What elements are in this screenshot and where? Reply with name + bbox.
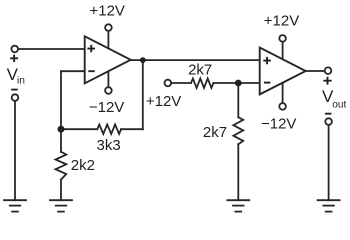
terminal U2 +12V supply [279,35,286,42]
wire R4 to ground [237,144,239,200]
terminal U2 -12V supply [279,103,286,110]
svg-text:3k3: 3k3 [97,137,121,154]
op-amp U1 [85,36,131,83]
wire U1 positive supply pin [107,32,109,50]
wire Vin- down to ground [14,102,16,200]
wire Vin+ to U1 non-inverting input [19,48,85,50]
terminal Vout- [325,118,332,125]
wire U1 output to U2 non-inverting input [131,59,260,61]
svg-text:out: out [332,100,346,111]
minus mark at Vout- terminal [325,113,332,115]
terminal Vin+ [11,46,18,53]
ground (Vin-) [4,200,26,211]
wire U2 positive supply pin [282,43,284,60]
svg-text:2k7: 2k7 [188,61,212,78]
terminal U1 +12V supply [105,24,112,31]
op-amp U2 [260,48,306,95]
U2 inverting input minus mark [264,82,271,84]
svg-text:+12V: +12V [146,93,181,110]
wire R1 to ground [60,180,62,201]
svg-text:in: in [17,76,25,87]
U1 inverting input minus mark [88,70,95,72]
wire Vout- down to ground [328,126,330,200]
wire node A to R2 [61,128,97,130]
node A junction dot [58,126,65,133]
wire inverting input down to node A [60,71,62,129]
plus mark at Vout+ terminal [323,77,331,85]
terminal Vin- [12,94,19,101]
ground (R4 2k7) [227,200,249,211]
node C junction dot [235,80,242,87]
node B junction dot [140,57,146,63]
wire U1 negative supply pin [107,70,109,86]
resistor R4 2k7 (vertical) [233,117,243,144]
U2 non-inverting input plus mark [263,57,271,64]
svg-text:+12V: +12V [89,2,124,19]
svg-text:2k7: 2k7 [203,124,227,141]
wire U2 negative supply pin [282,81,284,102]
ground (Vout-) [318,200,340,211]
wire +12V terminal to R3 [172,82,191,84]
resistor R1 2k2 [56,152,67,180]
plus mark at Vin+ terminal [10,55,18,62]
svg-text:+12V: +12V [264,13,299,30]
terminal +12V reference [165,80,172,87]
minus mark at Vin- terminal [11,89,18,91]
ground (R1 2k2) [50,200,72,211]
wire U2 output [306,70,324,72]
wire U1 inverting input [61,70,85,72]
svg-text:−12V: −12V [261,115,296,132]
U1 non-inverting input plus mark [87,45,95,52]
wire node A down to R1 [60,129,62,152]
wire R3 to U2 inverting input [214,82,260,84]
svg-text:2k2: 2k2 [71,157,95,174]
svg-text:−12V: −12V [89,99,124,116]
resistor R2 3k3 (feedback) [97,125,121,134]
terminal Vout+ [325,67,332,74]
wire R2 to feedback corner [121,128,143,130]
wire feedback up to node B [142,60,144,129]
terminal U1 -12V supply [105,87,112,94]
resistor R3 2k7 (horizontal) [191,79,214,88]
wire node C down to R4 [237,83,239,117]
